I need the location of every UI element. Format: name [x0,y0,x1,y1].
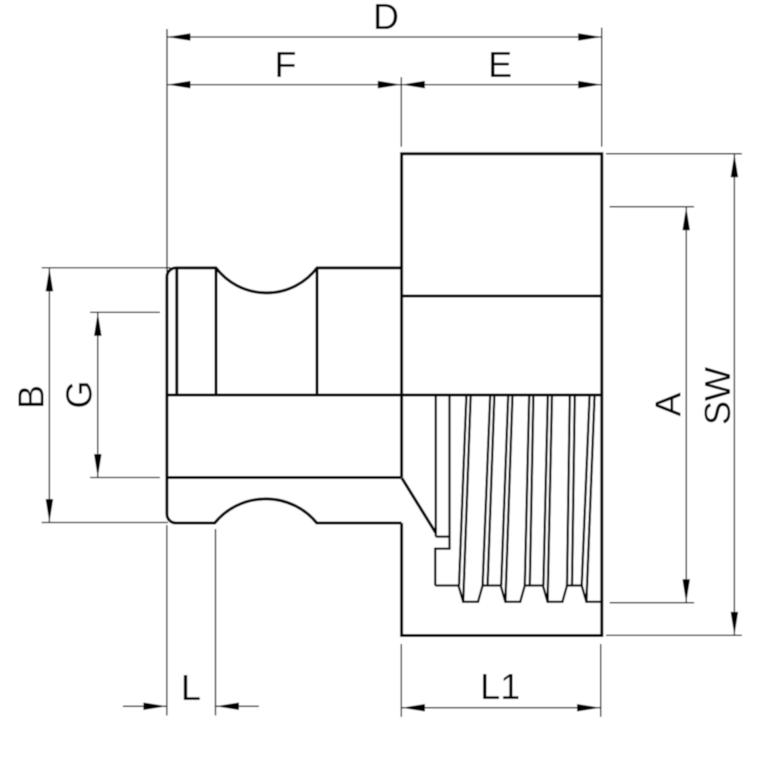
svg-text:G: G [59,380,100,408]
flange bottom line [167,476,402,479]
svg-text:L1: L1 [480,666,520,707]
svg-text:B: B [10,385,51,409]
adapter groove right vertical [316,268,319,395]
G arrows [94,312,102,336]
svg-text:F: F [275,44,297,85]
bore wall upper [435,395,437,537]
dimension E line [401,84,601,86]
dimension SW line [733,154,735,636]
L1 arrows [402,704,426,712]
svg-text:A: A [647,392,688,416]
D arrows [167,33,191,41]
dimension SW extension lines [606,153,742,155]
L arrows (outside, pointing in) [143,702,167,710]
svg-text:D: D [373,0,399,37]
dimension L1 line [402,707,601,709]
dimension F line [167,84,401,86]
thread root V 1 [459,586,483,602]
dimension L extension lines [166,525,168,716]
dimension A extension lines [610,206,694,208]
dimension B line [48,268,50,523]
thread flank lines [459,395,466,586]
dimension A line [685,207,687,603]
thread root V 4 [582,586,602,602]
bore chamfer diagonal [402,478,436,533]
dimension F/E shared extension [400,77,402,147]
thread root V 2 [501,586,525,602]
dimension D extension lines [166,29,168,272]
A arrows [682,207,690,231]
dimension L1 extension lines [400,644,402,717]
E arrows [401,81,425,89]
dimension L lines (outside arrows) [123,705,167,707]
dimension D line [167,36,602,38]
dimension G line [97,312,99,477]
dimension G extension lines [90,311,160,313]
adapter groove left vertical [215,268,218,395]
F arrows [167,81,191,89]
thread root V 3 [543,586,567,602]
svg-text:L: L [181,667,201,708]
bore bottom segments [435,584,458,586]
thread relief notch [436,535,450,537]
svg-text:E: E [488,44,512,85]
hex chamfer line [402,295,602,298]
adapter inner vertical 1 [175,268,178,395]
B arrows [46,268,54,292]
SW arrows [731,154,739,178]
dimension B extension lines [42,267,171,269]
svg-text:SW: SW [697,367,738,425]
flange top line [167,394,602,397]
camlock adapter outer profile [167,268,402,523]
hex block outline [402,154,602,636]
